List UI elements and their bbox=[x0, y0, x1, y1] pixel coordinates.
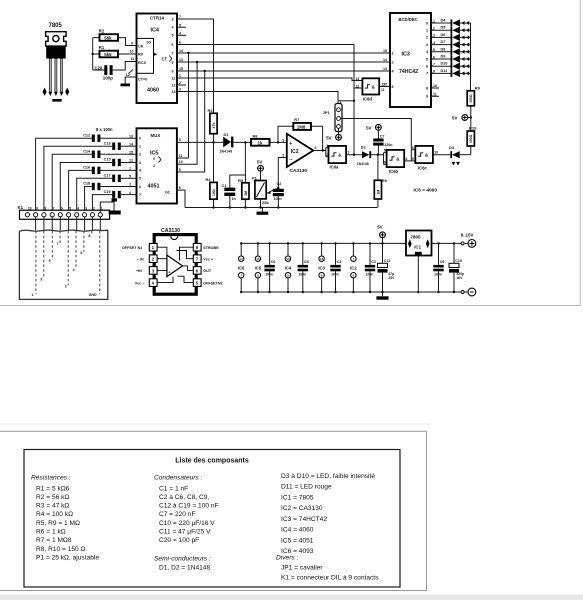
svg-text:C10: C10 bbox=[455, 259, 462, 263]
svg-text:C11: C11 bbox=[384, 259, 390, 263]
svg-text:7: 7 bbox=[172, 51, 174, 55]
svg-text:3: 3 bbox=[85, 206, 87, 210]
capacitor C3 100n bbox=[365, 242, 376, 293]
svg-text:R8, R10 = 150 Ω: R8, R10 = 150 Ω bbox=[36, 546, 86, 553]
svg-text:Vcc −: Vcc − bbox=[135, 281, 145, 285]
svg-text:2: 2 bbox=[153, 164, 155, 168]
svg-text:6: 6 bbox=[139, 185, 141, 189]
LED D4 bbox=[431, 19, 471, 27]
keypad wire 2 bbox=[67, 231, 69, 285]
svg-text:−: − bbox=[289, 157, 292, 163]
CA3130 pinout diagram bbox=[122, 228, 223, 294]
svg-text:D3: D3 bbox=[449, 146, 454, 150]
wire IC4 pin13 to IC3 pin14 bbox=[177, 61, 390, 165]
svg-text:74HC42: 74HC42 bbox=[399, 69, 418, 75]
svg-text:D2: D2 bbox=[361, 146, 366, 150]
svg-text:2: 2 bbox=[179, 81, 181, 85]
svg-text:R1 = 5 kΩ6: R1 = 5 kΩ6 bbox=[36, 485, 70, 492]
svg-text:13: 13 bbox=[172, 90, 176, 94]
svg-text:6: 6 bbox=[80, 251, 82, 255]
schematic page frame bbox=[0, 0, 580, 306]
svg-text:14: 14 bbox=[383, 58, 387, 62]
svg-text:5k6: 5k6 bbox=[104, 52, 112, 57]
svg-text:150Ω: 150Ω bbox=[469, 94, 473, 103]
svg-text:C2: C2 bbox=[277, 182, 282, 186]
svg-text:1N4148: 1N4148 bbox=[220, 150, 233, 154]
potentiometer P1 bbox=[252, 160, 278, 209]
svg-text:1M8: 1M8 bbox=[297, 125, 306, 130]
svg-text:7: 7 bbox=[57, 242, 59, 246]
svg-text:1: 1 bbox=[392, 51, 394, 55]
svg-text:47k: 47k bbox=[212, 123, 216, 129]
svg-text:R3 = 47 kΩ: R3 = 47 kΩ bbox=[36, 503, 69, 510]
svg-text:9: 9 bbox=[36, 206, 38, 210]
svg-text:IC2 = CA3130: IC2 = CA3130 bbox=[281, 505, 323, 512]
resistor R10 bbox=[467, 118, 477, 155]
svg-text:C15: C15 bbox=[104, 158, 111, 162]
svg-text:11: 11 bbox=[179, 154, 183, 158]
capacitor C6 100n bbox=[264, 242, 275, 293]
keypad wire 8 bbox=[91, 231, 93, 235]
IC4 output pins bbox=[172, 15, 187, 94]
svg-text:13: 13 bbox=[356, 77, 360, 81]
svg-text:IC2: IC2 bbox=[291, 149, 299, 155]
LED D6 bbox=[431, 33, 471, 41]
svg-text:R5: R5 bbox=[238, 178, 244, 183]
svg-text:100p: 100p bbox=[103, 76, 113, 81]
capacitor C9 100n bbox=[433, 242, 444, 293]
svg-text:C13: C13 bbox=[104, 141, 111, 145]
svg-text:R8: R8 bbox=[475, 86, 481, 91]
svg-text:JP1: JP1 bbox=[323, 110, 331, 115]
svg-text:5: 5 bbox=[139, 177, 141, 181]
svg-text:10: 10 bbox=[434, 151, 438, 155]
resistor R4 bbox=[206, 177, 218, 209]
svg-text:− IN: − IN bbox=[137, 257, 144, 261]
wire IC2 inverting input bbox=[278, 157, 287, 159]
svg-text:7: 7 bbox=[426, 72, 428, 76]
svg-text:IC1: IC1 bbox=[414, 244, 421, 249]
svg-text:6: 6 bbox=[61, 206, 63, 210]
svg-text:CT: CT bbox=[162, 57, 168, 62]
wire 5V supply rail bbox=[241, 242, 406, 244]
svg-text:4060: 4060 bbox=[147, 88, 159, 94]
LED D9 bbox=[431, 55, 471, 63]
svg-text:9: 9 bbox=[172, 69, 174, 73]
parts list capacitors column bbox=[154, 475, 219, 572]
svg-text:IC3: IC3 bbox=[402, 52, 410, 58]
svg-text:5V: 5V bbox=[452, 116, 457, 121]
svg-text:100n: 100n bbox=[265, 272, 273, 276]
capacitor C15 bbox=[60, 158, 136, 213]
LED D11 bbox=[431, 69, 471, 77]
svg-text:R5, R9 = 1 MΩ: R5, R9 = 1 MΩ bbox=[36, 520, 80, 527]
gate IC6c bbox=[411, 146, 438, 171]
svg-text:6: 6 bbox=[172, 43, 174, 47]
svg-text:13: 13 bbox=[179, 58, 183, 62]
svg-text:0: 0 bbox=[426, 21, 428, 25]
svg-text:2: 2 bbox=[282, 153, 284, 157]
svg-text:C9: C9 bbox=[440, 260, 445, 264]
svg-text:1: 1 bbox=[32, 293, 34, 297]
svg-text:CTR14: CTR14 bbox=[150, 16, 164, 21]
svg-text:5: 5 bbox=[69, 206, 71, 210]
svg-text:IC1 = 7805: IC1 = 7805 bbox=[281, 494, 314, 501]
svg-text:C6: C6 bbox=[271, 260, 276, 264]
svg-text:C14: C14 bbox=[83, 150, 91, 154]
capacitor C19 bbox=[92, 190, 136, 213]
svg-text:CA3130: CA3130 bbox=[290, 168, 308, 174]
svg-text:1G: 1G bbox=[146, 40, 151, 44]
keypad wire 4 bbox=[75, 231, 77, 269]
power pins IC6 bbox=[238, 242, 245, 293]
svg-text:C1 = 1 nF: C1 = 1 nF bbox=[159, 485, 188, 492]
svg-text:RX: RX bbox=[138, 53, 144, 57]
LED D7 bbox=[431, 40, 471, 48]
IC5 select pins bbox=[179, 154, 183, 172]
svg-text:R1: R1 bbox=[99, 45, 105, 50]
parts list outer box bbox=[0, 424, 430, 591]
svg-text:14: 14 bbox=[240, 257, 244, 261]
wire IC4 pin14 to IC3 pin15 bbox=[177, 52, 390, 158]
svg-text:C17: C17 bbox=[104, 174, 111, 178]
svg-text:5: 5 bbox=[179, 23, 181, 27]
svg-text:2: 2 bbox=[139, 153, 141, 157]
IC5 4051 multiplexer bbox=[137, 128, 177, 203]
svg-text:C7: C7 bbox=[380, 135, 385, 139]
IC3 input pin labels bbox=[383, 49, 394, 89]
keypad wire 3 bbox=[43, 231, 45, 278]
svg-text:12: 12 bbox=[356, 84, 360, 88]
wire IC4 pin15 to IC3 pin13 bbox=[177, 70, 390, 172]
svg-text:100k: 100k bbox=[212, 189, 216, 196]
svg-text:8 x 100n: 8 x 100n bbox=[96, 127, 113, 132]
svg-text:C4: C4 bbox=[337, 260, 342, 264]
svg-text:1: 1 bbox=[340, 100, 342, 104]
svg-text:IC3: IC3 bbox=[318, 266, 325, 271]
svg-text:8: 8 bbox=[45, 206, 47, 210]
parts list inner box bbox=[24, 450, 400, 588]
svg-text:C10 = 220 µF/16 V: C10 = 220 µF/16 V bbox=[159, 520, 215, 527]
svg-text:4: 4 bbox=[77, 206, 79, 210]
svg-text:IC3 = 74HCT42: IC3 = 74HCT42 bbox=[281, 516, 327, 523]
svg-text:IC4: IC4 bbox=[285, 266, 292, 271]
svg-text:3: 3 bbox=[282, 138, 284, 142]
svg-text:RCX: RCX bbox=[138, 61, 146, 65]
svg-text:7: 7 bbox=[179, 15, 181, 19]
svg-text:+IN: +IN bbox=[136, 269, 142, 273]
svg-text:C20: C20 bbox=[95, 65, 103, 70]
voltage regulator IC1 7805 bbox=[406, 231, 432, 294]
svg-text:D6: D6 bbox=[441, 33, 446, 37]
power pins IC5 bbox=[255, 242, 262, 293]
svg-text:C18: C18 bbox=[83, 182, 90, 186]
svg-text:R4 = 100 kΩ: R4 = 100 kΩ bbox=[36, 511, 73, 518]
svg-text:D8: D8 bbox=[441, 47, 446, 51]
svg-text:C12: C12 bbox=[83, 133, 90, 137]
svg-text:Liste des composants: Liste des composants bbox=[175, 458, 249, 465]
svg-text:C19: C19 bbox=[104, 190, 111, 194]
svg-text:,12: ,12 bbox=[381, 82, 386, 86]
svg-text:IC6c: IC6c bbox=[418, 166, 428, 171]
svg-text:0: 0 bbox=[139, 137, 141, 141]
svg-text:CT=0: CT=0 bbox=[138, 78, 147, 82]
svg-text:GND: GND bbox=[89, 293, 97, 297]
svg-text:100n: 100n bbox=[298, 272, 306, 276]
svg-text:14: 14 bbox=[179, 49, 183, 53]
capacitor C2 bbox=[273, 182, 284, 209]
svg-text:STROBE: STROBE bbox=[203, 246, 219, 250]
resistor R7 feedback bbox=[277, 117, 323, 150]
resistor R3 bbox=[208, 108, 218, 182]
svg-text:1M: 1M bbox=[244, 191, 248, 196]
keypad wire 7 bbox=[59, 231, 61, 243]
capacitor C16 bbox=[69, 166, 137, 213]
svg-text:220n: 220n bbox=[384, 143, 392, 147]
power 5V below JP1 bbox=[326, 128, 341, 140]
svg-text:3: 3 bbox=[40, 278, 42, 282]
svg-text:BCD/DEC: BCD/DEC bbox=[399, 17, 418, 22]
svg-text:5: 5 bbox=[172, 34, 174, 38]
capacitor C14 bbox=[52, 150, 136, 213]
capacitor C11 47u electrolytic bbox=[378, 243, 396, 293]
resistor R8 bbox=[467, 86, 480, 118]
svg-text:D11: D11 bbox=[441, 69, 448, 73]
svg-text:Résistances :: Résistances : bbox=[31, 475, 71, 482]
keypad wire 5 bbox=[51, 231, 53, 260]
svg-text:R7: R7 bbox=[294, 117, 300, 122]
svg-text:R2 = 56 kΩ: R2 = 56 kΩ bbox=[36, 494, 69, 501]
svg-text:D1, D2 = 1N4148: D1, D2 = 1N4148 bbox=[159, 564, 210, 571]
svg-text:150Ω: 150Ω bbox=[469, 134, 473, 143]
capacitor C10 220u electrolytic bbox=[449, 242, 464, 293]
resistor R1 bbox=[92, 45, 137, 57]
svg-text:6: 6 bbox=[179, 41, 181, 45]
wire IC4 pin1 to IC6d bbox=[186, 78, 362, 81]
capacitor C1 bbox=[222, 142, 246, 208]
svg-text:5V: 5V bbox=[326, 135, 331, 140]
svg-text:11: 11 bbox=[131, 57, 135, 61]
diode D2 1N4148 bbox=[357, 146, 384, 166]
svg-text:C1: C1 bbox=[222, 184, 227, 188]
svg-text:8: 8 bbox=[88, 234, 90, 238]
svg-text:8: 8 bbox=[412, 146, 414, 150]
svg-text:25k: 25k bbox=[262, 200, 269, 205]
svg-text:12: 12 bbox=[172, 83, 176, 87]
svg-text:16: 16 bbox=[256, 257, 260, 261]
svg-text:8: 8 bbox=[392, 85, 394, 89]
keypad box bbox=[19, 230, 107, 299]
svg-text:4: 4 bbox=[139, 169, 141, 173]
svg-text:11: 11 bbox=[172, 76, 176, 80]
svg-text:11: 11 bbox=[381, 88, 385, 92]
svg-text:5: 5 bbox=[426, 57, 428, 61]
svg-text:MUX: MUX bbox=[151, 133, 161, 138]
LED D5 bbox=[431, 26, 471, 34]
svg-text:16: 16 bbox=[286, 257, 290, 261]
svg-text:C11 = 47 µF/25 V: C11 = 47 µF/25 V bbox=[159, 529, 211, 536]
svg-text:G1: G1 bbox=[165, 191, 170, 195]
wire LED anode bus bbox=[470, 23, 472, 91]
LED D3 bbox=[433, 146, 471, 166]
svg-text:1k: 1k bbox=[258, 141, 263, 146]
capacitor C7 bbox=[366, 124, 392, 154]
svg-text:IC5 = 4051: IC5 = 4051 bbox=[281, 537, 314, 544]
svg-text:C3: C3 bbox=[371, 260, 376, 264]
jumper JP1 bbox=[323, 100, 343, 132]
power pins IC2 bbox=[350, 242, 357, 293]
svg-text:R10: R10 bbox=[469, 125, 477, 130]
svg-text:IC2: IC2 bbox=[350, 266, 357, 271]
svg-text:4: 4 bbox=[73, 268, 75, 272]
svg-text:1: 1 bbox=[139, 145, 141, 149]
svg-text:D3 à D10 = LED, faible intens: D3 à D10 = LED, faible intensité bbox=[281, 473, 375, 480]
svg-text:R3: R3 bbox=[208, 108, 214, 113]
svg-text:D9: D9 bbox=[441, 55, 446, 59]
svg-text:2: 2 bbox=[65, 285, 67, 289]
main ground symbol bbox=[376, 292, 388, 300]
power pins IC4 bbox=[285, 242, 292, 293]
svg-text:IC6: IC6 bbox=[238, 266, 245, 271]
svg-text:13: 13 bbox=[383, 67, 387, 71]
svg-text:7: 7 bbox=[139, 193, 141, 197]
svg-text:C5: C5 bbox=[304, 260, 309, 264]
svg-text:5V: 5V bbox=[366, 125, 371, 130]
svg-text:100n: 100n bbox=[434, 272, 442, 276]
svg-text:6: 6 bbox=[426, 65, 428, 69]
svg-text:IC5: IC5 bbox=[255, 266, 262, 271]
svg-text:K1 = connecteur DIL à 9 contac: K1 = connecteur DIL à 9 contacts bbox=[281, 574, 379, 581]
svg-text:6: 6 bbox=[315, 146, 317, 150]
svg-text:9: 9 bbox=[179, 168, 181, 172]
svg-text:D11 = LED rouge: D11 = LED rouge bbox=[281, 484, 332, 491]
svg-text:100n: 100n bbox=[331, 272, 339, 276]
wire K1 pin1 to ground bbox=[100, 198, 120, 214]
svg-text:9: 9 bbox=[131, 41, 133, 45]
gate IC6a bbox=[326, 144, 362, 170]
svg-text:2: 2 bbox=[392, 60, 394, 64]
svg-text:1: 1 bbox=[179, 74, 181, 78]
svg-text:100n: 100n bbox=[366, 272, 374, 276]
IC5 input pin labels bbox=[129, 134, 141, 197]
svg-text:3: 3 bbox=[179, 138, 181, 142]
svg-text:8: 8 bbox=[172, 60, 174, 64]
svg-text:16: 16 bbox=[320, 257, 324, 261]
power 5V tap on rail bbox=[377, 225, 385, 245]
svg-text:C7 = 220 nF: C7 = 220 nF bbox=[159, 511, 195, 518]
svg-text:JP1 = cavalier: JP1 = cavalier bbox=[281, 564, 323, 571]
capacitor C20 bbox=[93, 57, 137, 80]
svg-text:6: 6 bbox=[179, 186, 181, 190]
LED D8 bbox=[431, 47, 471, 55]
svg-text:7805: 7805 bbox=[410, 234, 421, 239]
svg-text:C12 à C19 = 100 nF: C12 à C19 = 100 nF bbox=[159, 503, 219, 510]
svg-text:4: 4 bbox=[179, 32, 181, 36]
svg-text:P1: P1 bbox=[252, 175, 258, 180]
svg-text:56k: 56k bbox=[104, 36, 112, 41]
svg-text:2: 2 bbox=[426, 36, 428, 40]
svg-text:9: 9 bbox=[412, 157, 414, 161]
input terminals 8..15V bbox=[461, 233, 476, 296]
connector K1 bbox=[18, 205, 110, 220]
capacitor C18 bbox=[83, 182, 136, 213]
svg-text:12: 12 bbox=[126, 73, 130, 77]
svg-text:8: 8 bbox=[426, 86, 428, 90]
svg-text:1: 1 bbox=[101, 206, 103, 210]
svg-text:7: 7 bbox=[53, 206, 55, 210]
svg-text:1M: 1M bbox=[376, 190, 380, 195]
svg-text:3: 3 bbox=[426, 43, 428, 47]
svg-text:3: 3 bbox=[172, 17, 174, 21]
resistor R6 bbox=[251, 133, 287, 145]
wires K1 to keypad bbox=[36, 217, 101, 230]
gate IC6b bbox=[384, 149, 416, 175]
capacitor C5 100n bbox=[298, 242, 309, 293]
svg-text:1: 1 bbox=[426, 29, 428, 33]
IC3 output pin labels 0-9 bbox=[426, 19, 439, 98]
svg-text:D7: D7 bbox=[441, 40, 446, 44]
svg-text:7805: 7805 bbox=[49, 23, 63, 29]
svg-text:15: 15 bbox=[179, 67, 183, 71]
keypad wire 6 bbox=[83, 231, 85, 252]
resistor R5 bbox=[238, 175, 249, 209]
capacitor C13 bbox=[44, 141, 137, 212]
svg-text:C2 à C6, C8, C9,: C2 à C6, C8, C9, bbox=[159, 494, 209, 501]
svg-text:R6: R6 bbox=[253, 133, 259, 138]
gate IC6d bbox=[354, 77, 390, 102]
analog ground rail bbox=[185, 208, 377, 215]
bottom gray band bbox=[0, 595, 583, 600]
wire oscillator left bus bbox=[92, 38, 94, 70]
svg-text:D1: D1 bbox=[224, 133, 229, 137]
wire IC4 pin7 to R3 bbox=[186, 19, 214, 113]
svg-text:2: 2 bbox=[93, 206, 95, 210]
svg-text:5: 5 bbox=[384, 149, 386, 153]
svg-text:5V: 5V bbox=[377, 225, 382, 230]
svg-text:R2: R2 bbox=[99, 28, 105, 33]
svg-text:5: 5 bbox=[49, 259, 51, 263]
svg-text:K1: K1 bbox=[18, 205, 24, 210]
svg-text:Semi-conducteurs :: Semi-conducteurs : bbox=[154, 556, 211, 563]
svg-text:C20 = 100 pF: C20 = 100 pF bbox=[159, 537, 199, 544]
svg-text:IC6a: IC6a bbox=[330, 165, 340, 170]
svg-text:D10: D10 bbox=[441, 62, 448, 66]
svg-text:R6 = 1 kΩ: R6 = 1 kΩ bbox=[36, 529, 66, 536]
svg-text:100n: 100n bbox=[274, 197, 282, 201]
svg-text:10: 10 bbox=[179, 160, 183, 164]
svg-text:9: 9 bbox=[426, 95, 428, 99]
svg-text:IC5: IC5 bbox=[150, 151, 158, 157]
capacitor C4 100n bbox=[330, 242, 341, 293]
svg-text:3: 3 bbox=[179, 88, 181, 92]
svg-text:8..15V: 8..15V bbox=[461, 233, 474, 238]
power pins IC3 bbox=[318, 242, 325, 293]
svg-text:4: 4 bbox=[405, 157, 407, 161]
svg-text:1n: 1n bbox=[232, 197, 236, 201]
wire IC4 pin3 to JP1 bbox=[186, 92, 355, 104]
parts list semiconductors column bbox=[276, 473, 379, 582]
svg-text:4: 4 bbox=[392, 69, 394, 73]
power 5V node for LEDs bbox=[452, 115, 472, 121]
svg-text:Condensateurs :: Condensateurs : bbox=[154, 475, 203, 482]
svg-text:3: 3 bbox=[139, 161, 141, 165]
svg-text:C16: C16 bbox=[83, 166, 90, 170]
svg-text:R7 = 1 MΩ8: R7 = 1 MΩ8 bbox=[36, 537, 72, 544]
IC4 4060 counter bbox=[137, 14, 178, 104]
wire IC4 pin6 down to gates bbox=[186, 45, 354, 155]
svg-text:10: 10 bbox=[130, 50, 134, 54]
svg-text:CK: CK bbox=[138, 44, 144, 48]
